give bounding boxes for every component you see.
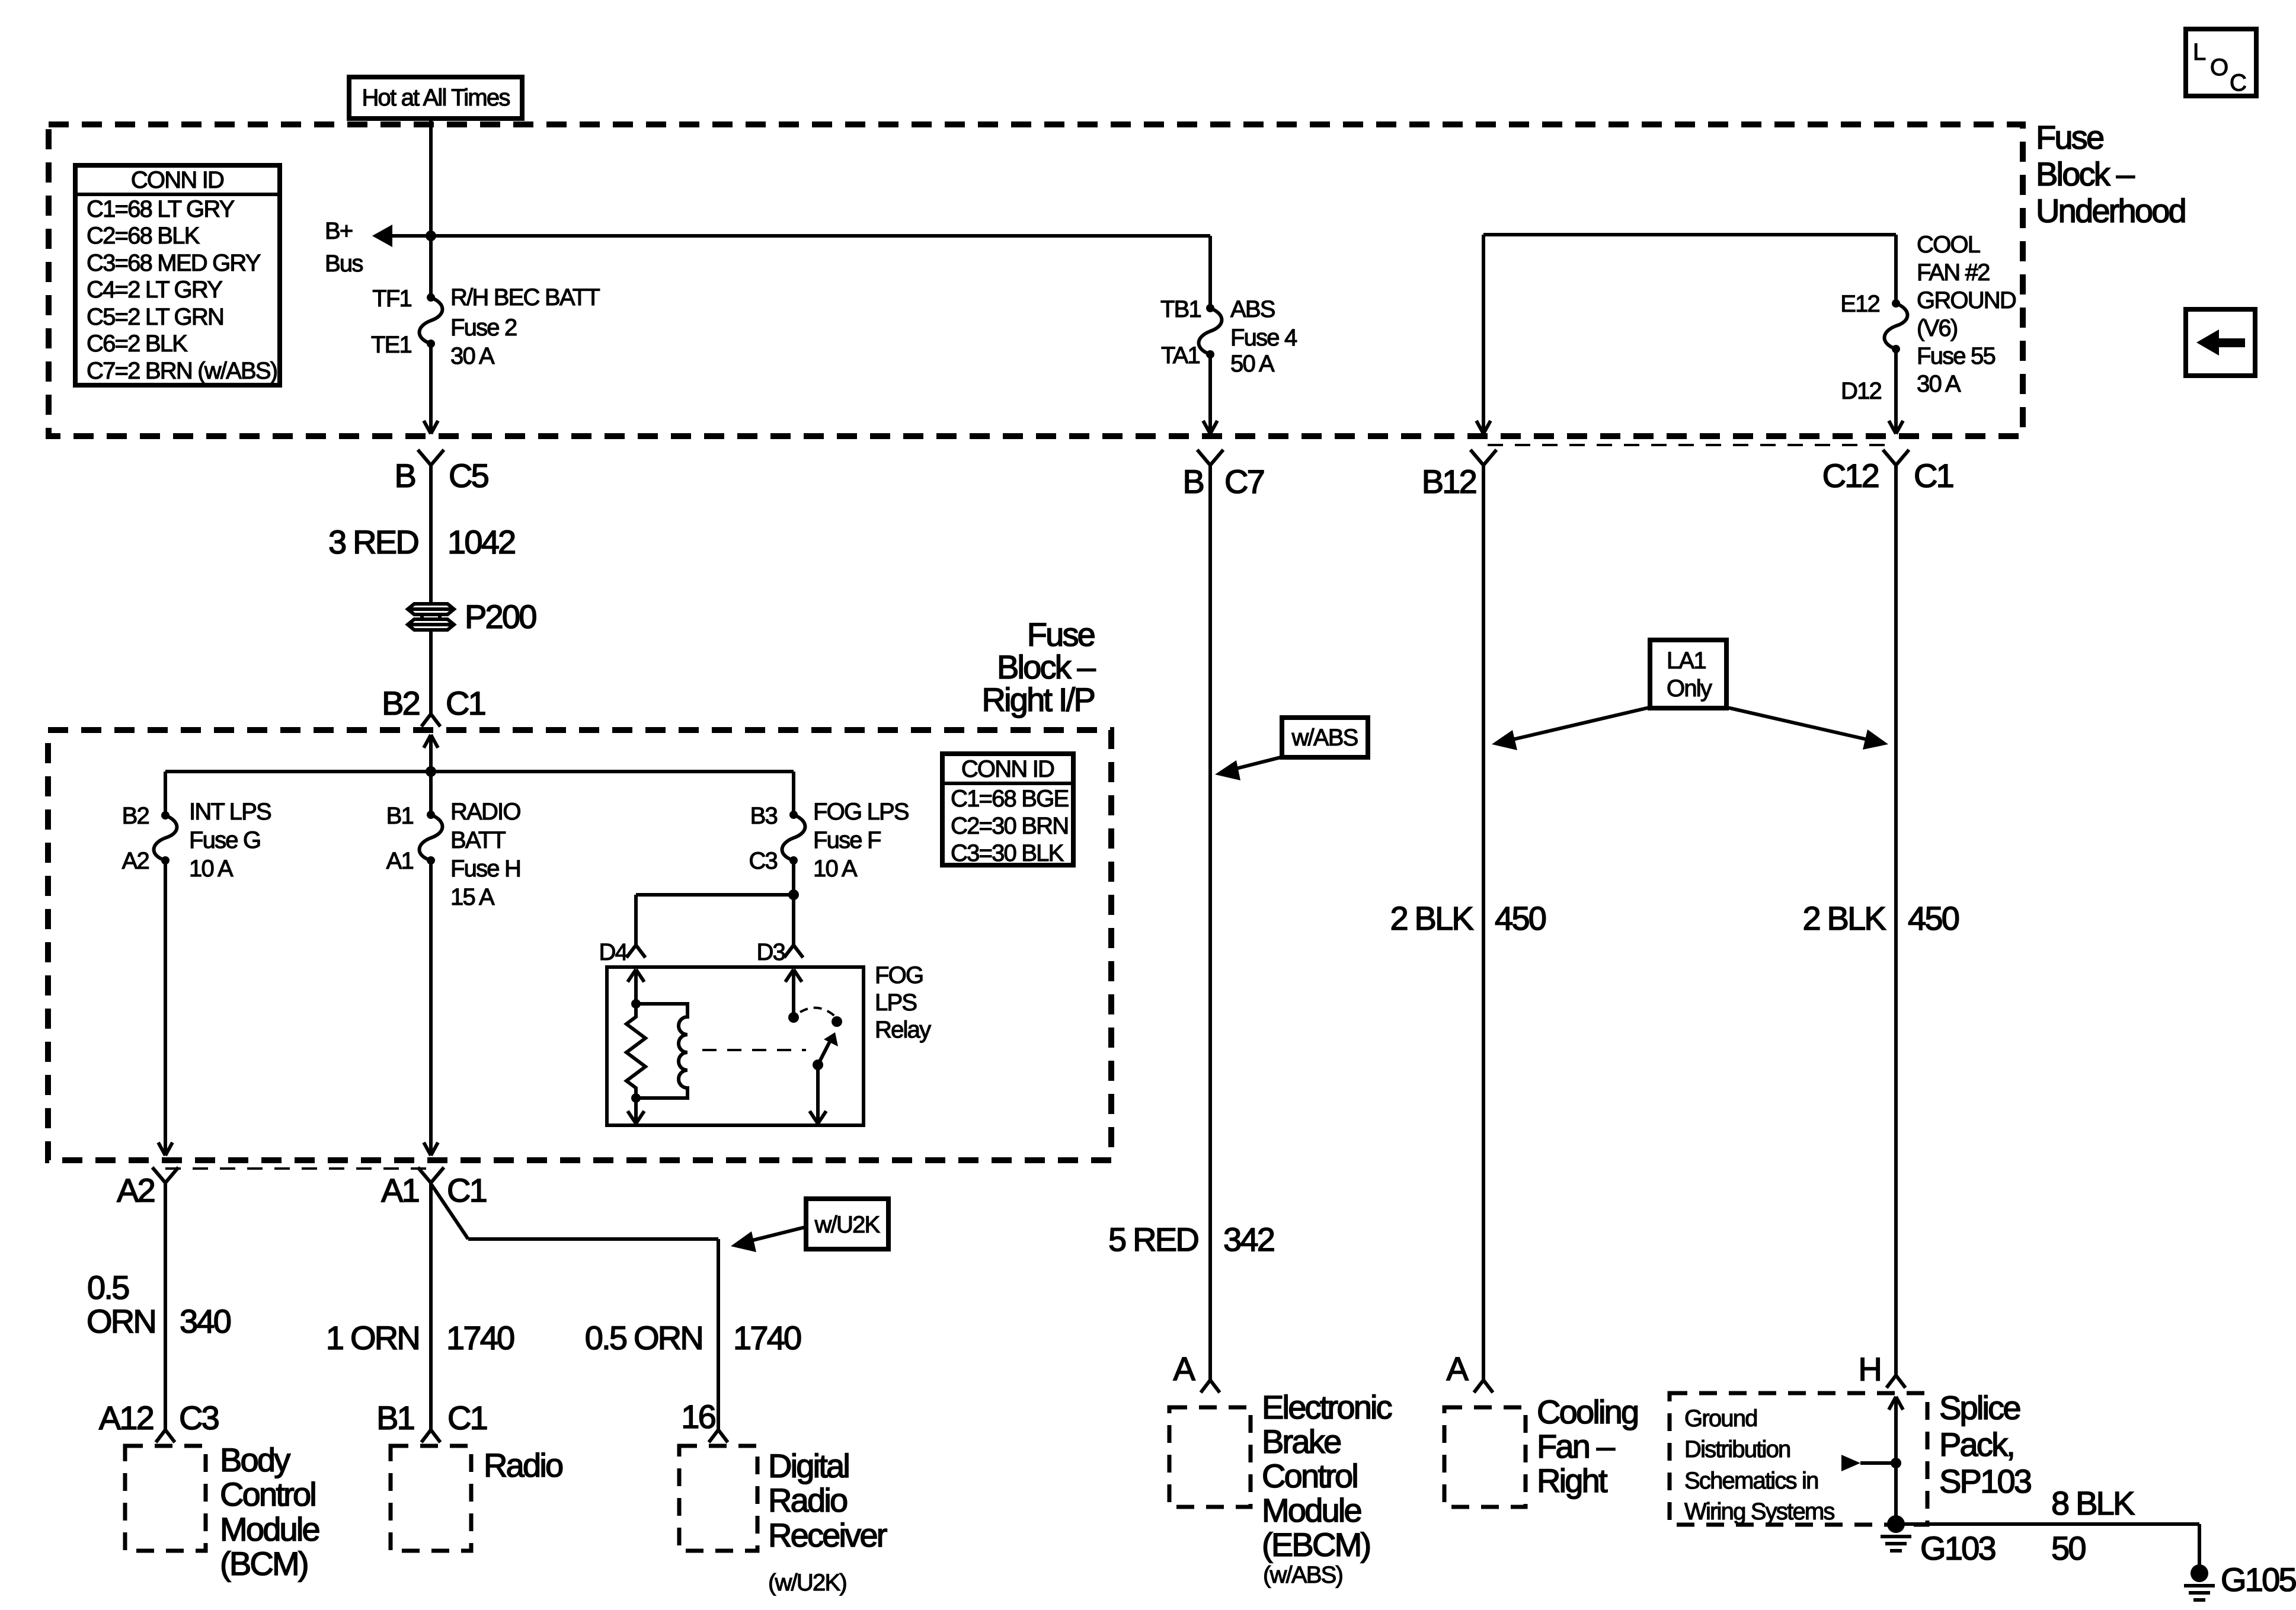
node: feed junction inside Right I/P <box>426 766 436 777</box>
component: Radio box <box>391 1446 471 1551</box>
svg-text:LPS: LPS <box>875 990 916 1016</box>
svg-text:(w/ABS): (w/ABS) <box>1263 1562 1342 1588</box>
box: Fuse Block - Right I/P (dashed) <box>48 730 1111 1160</box>
connector: B2 / C1 fork <box>421 714 440 726</box>
svg-text:340: 340 <box>180 1302 231 1340</box>
label: Electronic Brake Control Module (EBCM) (w/ABS) <box>1262 1388 1392 1588</box>
svg-text:R/H BEC BATT: R/H BEC BATT <box>450 284 600 311</box>
wire: Fuse 2 down to block edge with arrow <box>424 344 438 434</box>
label: B / C7 <box>1182 463 1264 500</box>
wire: coil-to-switch linkage (dashed) <box>702 1049 806 1051</box>
svg-text:Right I/P: Right I/P <box>981 681 1094 718</box>
wire: C1 down to splice pack <box>1894 465 1898 1375</box>
wire: LA1 Only right pointer arrow <box>1725 707 1888 750</box>
node: splice junction <box>1891 1458 1901 1468</box>
svg-text:RADIO: RADIO <box>450 799 520 825</box>
wire: cool fan #2 ground feed down to fuse 55 <box>1894 235 1898 303</box>
svg-text:0.5 ORN: 0.5 ORN <box>585 1319 702 1356</box>
fuse: FOG LPS Fuse F 10 A <box>782 811 805 865</box>
svg-text:H: H <box>1858 1350 1881 1388</box>
connector: A fork at EBCM <box>1201 1380 1220 1393</box>
svg-text:B2: B2 <box>382 684 420 722</box>
svg-text:B+: B+ <box>325 218 353 244</box>
svg-text:Module: Module <box>220 1510 319 1548</box>
fuse: ABS Fuse 4 50 A <box>1199 304 1222 359</box>
svg-text:B: B <box>394 457 415 494</box>
svg-text:B: B <box>1182 463 1203 500</box>
resistor: relay suppression resistor <box>626 1004 645 1098</box>
ground: G103 <box>1881 1515 1911 1551</box>
wire: B+ junction down to Fuse 2 <box>429 236 433 297</box>
svg-text:A: A <box>1173 1350 1195 1387</box>
fuse: RADIO BATT Fuse H 15 A <box>420 811 443 865</box>
svg-text:L: L <box>2193 39 2205 65</box>
svg-text:A1: A1 <box>381 1172 419 1209</box>
label: 8 BLK 50 <box>2051 1484 2135 1567</box>
svg-text:w/U2K: w/U2K <box>814 1212 881 1238</box>
wire: from Hot at All Times down <box>429 119 433 236</box>
svg-text:CONN ID: CONN ID <box>131 167 223 193</box>
svg-text:A1: A1 <box>386 848 414 874</box>
wire: fuse F output to relay feed <box>636 860 794 945</box>
label: B / C5 <box>394 457 488 494</box>
wire: cooling fan feed corner from fuse 55 bus <box>1476 235 1896 434</box>
svg-text:Pack,: Pack, <box>1939 1426 2014 1463</box>
svg-text:TB1: TB1 <box>1160 296 1201 322</box>
svg-text:ORN: ORN <box>87 1302 155 1340</box>
connector: A2 fork <box>152 1167 178 1183</box>
svg-text:w/ABS: w/ABS <box>1291 725 1357 751</box>
svg-text:342: 342 <box>1223 1221 1274 1258</box>
svg-text:Right: Right <box>1537 1462 1608 1499</box>
svg-text:Fuse 2: Fuse 2 <box>450 315 517 341</box>
wire: ground note pointer <box>1841 1455 1896 1471</box>
svg-text:Relay: Relay <box>875 1017 931 1043</box>
label: fuse H description <box>450 799 520 910</box>
connector: A1 / C1 fork <box>418 1167 444 1183</box>
svg-text:(BCM): (BCM) <box>220 1545 308 1582</box>
svg-text:30 A: 30 A <box>450 343 495 369</box>
label: fuse F description <box>813 799 909 882</box>
wire: fuse 4 down to block exit with arrow <box>1203 354 1217 434</box>
wire: thin dashed boundary A2 to A1 <box>165 1167 431 1170</box>
svg-text:1042: 1042 <box>447 523 515 561</box>
table: CONN ID (right I/P) <box>942 754 1073 866</box>
svg-text:C1: C1 <box>447 1172 487 1209</box>
svg-text:50: 50 <box>2051 1529 2085 1567</box>
wire: 8 BLK 50 run to G105 <box>1896 1524 2199 1567</box>
svg-text:FOG: FOG <box>875 962 923 988</box>
svg-text:FOG LPS: FOG LPS <box>813 799 909 825</box>
svg-text:16: 16 <box>681 1398 715 1435</box>
wire: w/U2K branch diagonal and run to receiver <box>431 1185 718 1430</box>
svg-text:C6=2 BLK: C6=2 BLK <box>87 331 188 357</box>
svg-text:O: O <box>2210 55 2228 81</box>
svg-text:(w/U2K): (w/U2K) <box>768 1570 846 1596</box>
wire: A1 down to Radio <box>429 1183 433 1430</box>
svg-text:A2: A2 <box>122 848 149 874</box>
svg-text:D3: D3 <box>756 939 785 965</box>
svg-text:(EBCM): (EBCM) <box>1262 1526 1370 1563</box>
component: Digital Radio Receiver box <box>679 1446 757 1551</box>
svg-text:Control: Control <box>220 1475 315 1513</box>
label: fuse G description <box>189 799 271 882</box>
svg-text:Radio: Radio <box>484 1446 562 1484</box>
label: A1 / C1 <box>381 1172 487 1209</box>
svg-text:ABS: ABS <box>1230 296 1275 322</box>
label: Fuse Block - Underhood <box>2036 119 2185 229</box>
svg-text:A: A <box>1446 1350 1469 1387</box>
node: switch pivot <box>813 1060 823 1070</box>
svg-text:B2: B2 <box>122 803 149 829</box>
svg-text:Fuse 55: Fuse 55 <box>1917 343 1995 369</box>
node: coil top junction <box>631 999 641 1009</box>
svg-text:C12: C12 <box>1822 457 1879 494</box>
wire: splice pack entry arrow <box>1889 1397 1903 1524</box>
svg-text:B1: B1 <box>376 1399 414 1436</box>
svg-text:Distribution: Distribution <box>1684 1436 1790 1462</box>
svg-text:Block –: Block – <box>997 648 1096 686</box>
svg-text:Control: Control <box>1262 1457 1357 1494</box>
wire: entry arrow into Right I/P block <box>424 735 438 772</box>
box: w/ABS flag <box>1282 718 1368 757</box>
svg-text:8 BLK: 8 BLK <box>2051 1484 2135 1522</box>
svg-text:10 A: 10 A <box>813 856 858 882</box>
box: Fuse Block - Underhood (dashed) <box>49 124 2023 436</box>
box: w/U2K flag <box>806 1199 888 1249</box>
label: 0.5 ORN 340 <box>87 1269 231 1340</box>
connector: A12 / C3 fork <box>156 1430 175 1442</box>
label: fuse 2 description <box>450 284 600 369</box>
svg-text:450: 450 <box>1495 900 1546 937</box>
node: B+ bus junction <box>426 231 436 241</box>
box: back-arrow page reference <box>2186 309 2255 376</box>
label: B1 / C1 <box>376 1399 487 1436</box>
svg-text:D4: D4 <box>599 939 628 965</box>
box: Hot at All Times label <box>349 77 522 119</box>
svg-text:30 A: 30 A <box>1917 371 1961 397</box>
label: Splice Pack, SP103 <box>1939 1389 2031 1500</box>
svg-text:A12: A12 <box>99 1399 154 1436</box>
label: 0.5 ORN 1740 <box>585 1319 801 1356</box>
svg-text:P200: P200 <box>465 598 536 635</box>
connector: D3 fork <box>784 945 803 958</box>
svg-text:Receiver: Receiver <box>768 1516 887 1554</box>
wire: switch output arrow to relay edge <box>810 1065 826 1124</box>
wire: switch travel dashed arc <box>800 1008 836 1017</box>
svg-text:BATT: BATT <box>450 827 506 853</box>
svg-text:TF1: TF1 <box>372 286 411 312</box>
label: Fuse Block - Right I/P <box>981 616 1096 718</box>
wire: thin dashed boundary B12 to C12 <box>1488 444 1888 446</box>
label: fuse 55 description <box>1917 232 2016 397</box>
connector: A fork at cooling fan <box>1474 1380 1493 1393</box>
svg-text:Bus: Bus <box>325 251 363 277</box>
svg-text:Electronic: Electronic <box>1262 1388 1392 1426</box>
node: switch NO contact <box>832 1016 842 1027</box>
label: Cooling Fan - Right <box>1537 1393 1638 1499</box>
connector: B12 fork <box>1470 450 1496 465</box>
splice: P200 grommet symbol <box>408 604 454 630</box>
svg-text:1740: 1740 <box>733 1319 801 1356</box>
svg-text:Digital: Digital <box>768 1447 849 1484</box>
svg-text:1 ORN: 1 ORN <box>326 1319 419 1356</box>
wire: relay switch input arrow (D3 side) <box>785 969 802 1017</box>
label: 1 ORN 1740 <box>326 1319 514 1356</box>
svg-text:C4=2 LT GRY: C4=2 LT GRY <box>87 277 222 303</box>
svg-text:Brake: Brake <box>1262 1423 1341 1460</box>
wire: coil output arrow to relay edge <box>628 1098 644 1124</box>
component: Body Control Module (BCM) box <box>125 1446 206 1551</box>
label: Ground Distribution Schematics in Wiring Systems <box>1684 1406 1834 1525</box>
svg-text:Body: Body <box>220 1441 290 1478</box>
svg-text:G105: G105 <box>2221 1561 2295 1598</box>
connector: D4 fork <box>626 945 645 958</box>
svg-text:Fuse: Fuse <box>1027 616 1095 653</box>
wire: fuse H output down to block exit with arrow <box>424 860 438 1156</box>
svg-text:Fuse G: Fuse G <box>189 827 260 853</box>
label: B2 / C1 <box>382 684 485 722</box>
svg-text:TA1: TA1 <box>1161 343 1200 369</box>
table: CONN ID (underhood) <box>75 165 280 385</box>
svg-text:Only: Only <box>1667 676 1712 702</box>
wire: B12 down to cooling fan <box>1482 465 1485 1380</box>
box: LA1 Only flag <box>1650 640 1726 708</box>
label: C12 / C1 <box>1822 457 1953 494</box>
svg-text:10 A: 10 A <box>189 856 234 882</box>
svg-text:5 RED: 5 RED <box>1108 1221 1198 1258</box>
svg-text:Block –: Block – <box>2036 155 2135 193</box>
svg-text:C1=68 LT GRY: C1=68 LT GRY <box>87 196 235 222</box>
svg-text:B1: B1 <box>386 803 414 829</box>
wire: B+ bus horizontal <box>372 225 1210 247</box>
connector: B / C7 fork <box>1197 450 1223 465</box>
svg-text:GROUND: GROUND <box>1917 287 2016 313</box>
svg-text:Ground: Ground <box>1684 1406 1757 1432</box>
svg-text:SP103: SP103 <box>1939 1462 2031 1500</box>
svg-text:C: C <box>2230 70 2246 96</box>
wire: fuse G output down to block exit with arrow <box>158 860 172 1156</box>
label: Digital Radio Receiver (w/U2K) <box>768 1447 887 1596</box>
svg-text:C1: C1 <box>446 684 485 722</box>
svg-text:1740: 1740 <box>446 1319 514 1356</box>
wire: w/ABS pointer arrow <box>1215 757 1283 780</box>
label: Body Control Module (BCM) <box>220 1441 319 1582</box>
wire: C7 down to EBCM <box>1208 465 1212 1380</box>
connector: H fork at splice pack <box>1886 1375 1905 1388</box>
label: FOG LPS Relay <box>875 962 931 1043</box>
svg-text:FAN #2: FAN #2 <box>1917 260 1990 286</box>
svg-text:C5=2 LT GRN: C5=2 LT GRN <box>87 304 223 330</box>
connector: C12 / C1 fork <box>1883 450 1909 465</box>
wire: C5 down to P200 <box>429 465 433 604</box>
svg-text:2 BLK: 2 BLK <box>1390 900 1473 937</box>
svg-text:Fuse 4: Fuse 4 <box>1230 325 1297 351</box>
svg-text:Fuse F: Fuse F <box>813 827 881 853</box>
svg-text:Module: Module <box>1262 1491 1361 1529</box>
svg-text:C7=2 BRN (w/ABS): C7=2 BRN (w/ABS) <box>87 358 277 384</box>
label: 5 RED 342 <box>1108 1221 1274 1258</box>
svg-text:C3=68 MED GRY: C3=68 MED GRY <box>87 250 261 276</box>
svg-text:Fan –: Fan – <box>1537 1427 1616 1465</box>
node: coil bottom junction <box>631 1093 641 1103</box>
svg-text:Splice: Splice <box>1939 1389 2020 1426</box>
connector: pin 16 fork <box>709 1430 728 1442</box>
svg-text:C2=30 BRN: C2=30 BRN <box>951 813 1068 839</box>
svg-text:B12: B12 <box>1422 463 1476 500</box>
fuse: INT LPS Fuse G 10 A <box>154 811 177 865</box>
svg-text:CONN ID: CONN ID <box>961 756 1054 782</box>
svg-text:Underhood: Underhood <box>2036 192 2185 229</box>
svg-text:C5: C5 <box>449 457 488 494</box>
svg-text:(V6): (V6) <box>1917 315 1957 341</box>
svg-text:Cooling: Cooling <box>1537 1393 1638 1430</box>
svg-text:C1: C1 <box>1914 457 1953 494</box>
label: 2 BLK 450 (right) <box>1802 900 1958 937</box>
svg-text:C3=30 BLK: C3=30 BLK <box>951 840 1064 866</box>
node: switch common contact <box>788 1012 799 1023</box>
svg-text:A2: A2 <box>117 1172 155 1209</box>
fuse: COOL FAN #2 GROUND (V6) Fuse 55 30 A <box>1885 299 1908 353</box>
ground: G105 <box>2184 1564 2215 1600</box>
svg-text:50 A: 50 A <box>1230 351 1275 377</box>
svg-text:TE1: TE1 <box>371 332 412 358</box>
svg-text:C7: C7 <box>1224 463 1264 500</box>
svg-text:2 BLK: 2 BLK <box>1802 900 1886 937</box>
svg-text:Wiring Systems: Wiring Systems <box>1684 1499 1834 1525</box>
svg-text:INT LPS: INT LPS <box>189 799 271 825</box>
connector: B / C5 fork <box>418 450 444 465</box>
node: relay feed junction <box>788 889 799 900</box>
svg-text:Schematics in: Schematics in <box>1684 1468 1818 1494</box>
component: Electronic Brake Control Module box <box>1169 1407 1251 1507</box>
svg-text:15 A: 15 A <box>450 884 495 910</box>
label: 3 RED 1042 <box>328 523 515 561</box>
wire: LA1 Only left pointer arrow <box>1492 707 1652 750</box>
svg-text:C2=68 BLK: C2=68 BLK <box>87 223 200 249</box>
inductor: relay coil <box>636 1004 687 1098</box>
box: Ground Distribution / Splice Pack (dashed) <box>1670 1393 1927 1525</box>
svg-text:Hot at All Times: Hot at All Times <box>362 85 510 111</box>
svg-text:COOL: COOL <box>1917 232 1980 258</box>
svg-text:3 RED: 3 RED <box>328 523 418 561</box>
connector: B1 / C1 fork at Radio <box>421 1430 440 1442</box>
relay: FOG LPS Relay box <box>607 967 864 1125</box>
svg-text:G103: G103 <box>1920 1529 1995 1567</box>
wire: P200 down to connector C1 <box>429 630 433 714</box>
label: 2 BLK 450 (left) <box>1390 900 1545 937</box>
svg-text:C1=68 BGE: C1=68 BGE <box>951 786 1068 812</box>
wire: A2 down to BCM <box>164 1183 167 1430</box>
svg-text:E12: E12 <box>1840 291 1879 317</box>
svg-text:0.5: 0.5 <box>87 1269 129 1306</box>
wire: relay coil input arrow (D4 side) <box>628 969 644 1004</box>
svg-text:Radio: Radio <box>768 1481 847 1519</box>
svg-text:B3: B3 <box>750 803 778 829</box>
wire: fuse 55 down to block exit with arrow <box>1889 349 1903 434</box>
fuse: R/H BEC BATT Fuse 2 30 A <box>420 293 443 348</box>
wire: switch blade with arrowhead <box>818 1032 838 1065</box>
svg-text:C3: C3 <box>749 848 777 874</box>
svg-text:450: 450 <box>1908 900 1959 937</box>
label: B+ Bus <box>325 218 363 277</box>
wire: w/U2K pointer arrow <box>731 1227 807 1252</box>
component: Cooling Fan - Right box <box>1444 1407 1526 1507</box>
label: A12 / C3 <box>99 1399 219 1436</box>
svg-text:Fuse: Fuse <box>2036 119 2103 156</box>
svg-text:C3: C3 <box>179 1399 219 1436</box>
wire: internal feed bus <box>165 772 794 815</box>
svg-text:D12: D12 <box>1841 378 1882 404</box>
label: fuse 4 description <box>1230 296 1297 377</box>
svg-text:C1: C1 <box>447 1399 487 1436</box>
svg-text:Fuse H: Fuse H <box>450 856 520 882</box>
box: LOC page reference <box>2186 29 2256 96</box>
wire: ABS feed from B+ bus down <box>1208 236 1212 308</box>
svg-text:LA1: LA1 <box>1667 648 1706 674</box>
